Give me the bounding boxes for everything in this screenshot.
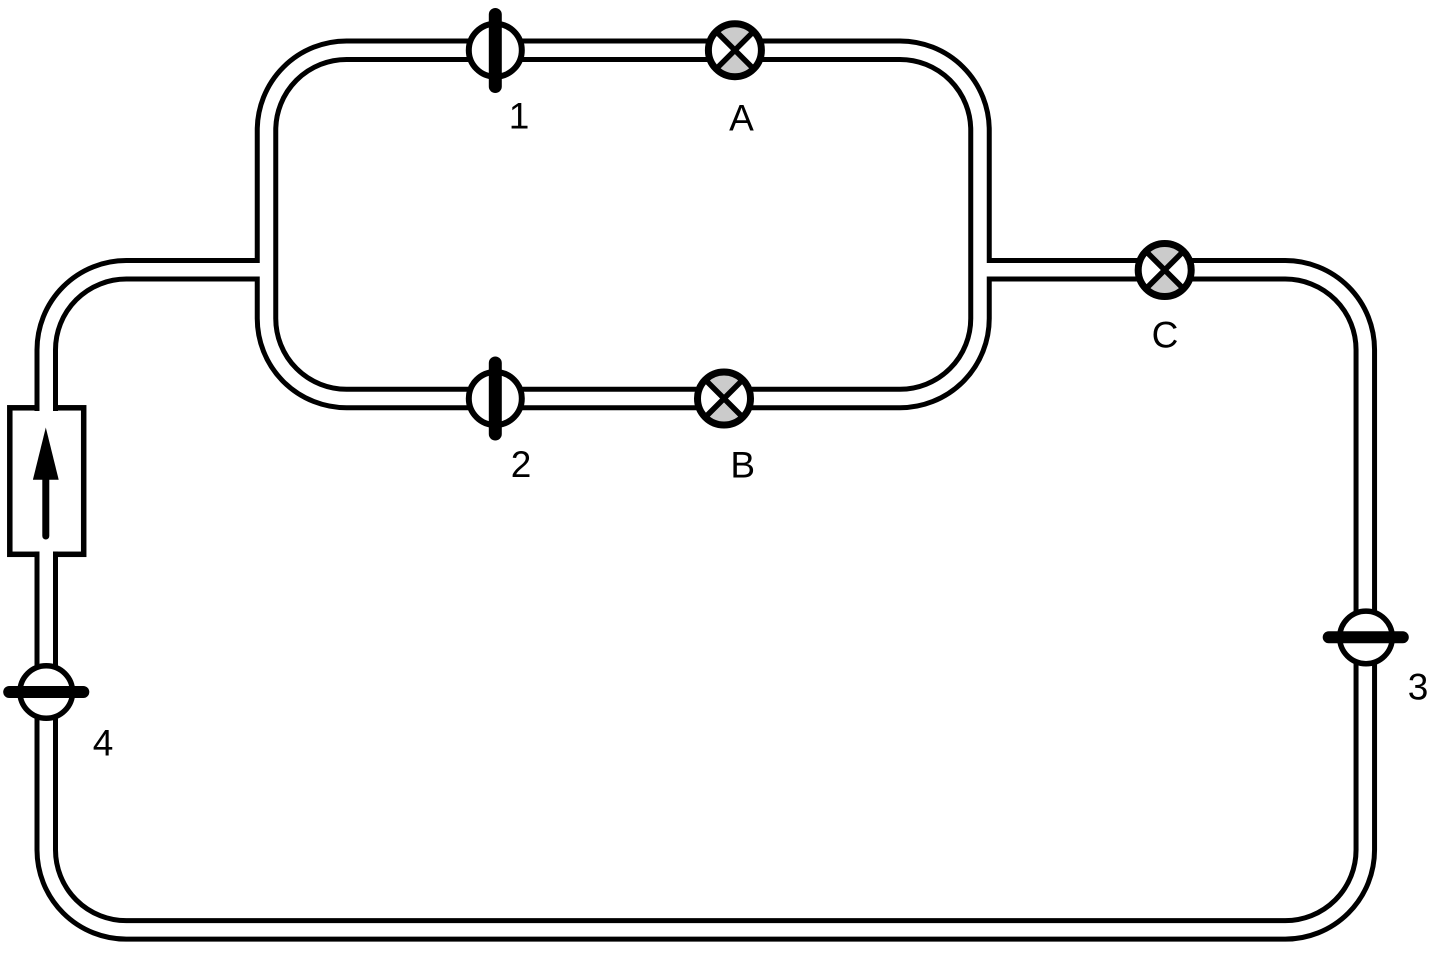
lamp B (bottom branch) — [698, 372, 751, 425]
wire: pipe bore (white), pump outlet to left T junction — [46, 270, 271, 411]
pump flow arrow (upward) — [33, 428, 59, 537]
wire: pipe walls, parallel-loop ring (branch 1-A top, branch 2-B bottom) — [267, 50, 981, 398]
svg-text:C: C — [1152, 315, 1179, 356]
svg-text:1: 1 — [509, 96, 530, 137]
valve 3 (closed valve, right side) — [1329, 611, 1403, 664]
valve 1 (open valve, top branch) — [469, 15, 522, 87]
pump housing (rectangle) — [10, 408, 84, 555]
svg-text:4: 4 — [93, 723, 114, 764]
svg-text:B: B — [730, 445, 755, 486]
wire: pipe walls, pump outlet to top-left corner to left T junction — [46, 270, 271, 411]
svg-text:2: 2 — [511, 444, 532, 485]
lamp C (series output) — [1138, 244, 1191, 297]
svg-text:3: 3 — [1408, 667, 1429, 708]
wire: pipe bore (white), right T junction to pump inlet — [46, 270, 1365, 930]
wire: pipe walls, right T junction through lamp C, right side down, bottom, up through valve 4 to pump inlet — [46, 270, 1365, 930]
wire: pipe bore (white), parallel-loop ring — [267, 50, 981, 398]
valve 4 (closed valve, left side) — [9, 666, 83, 719]
svg-text:A: A — [729, 98, 754, 139]
valve 2 (open valve, bottom branch) — [469, 363, 522, 434]
lamp A (top branch) — [708, 24, 761, 77]
